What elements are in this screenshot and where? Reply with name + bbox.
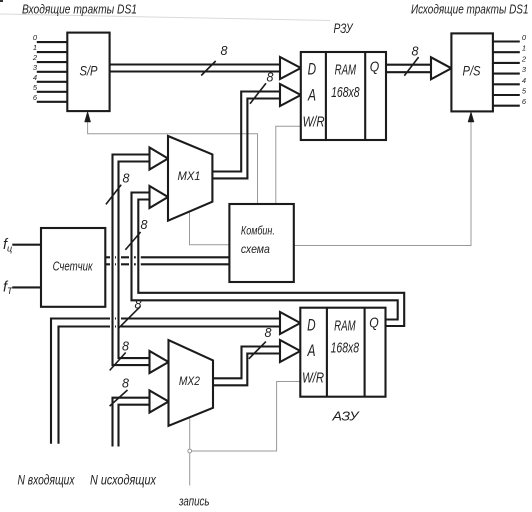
- svg-text:N исходящих: N исходящих: [90, 471, 157, 487]
- svg-text:P/S: P/S: [463, 63, 482, 79]
- svg-text:Исходящие тракты DS1: Исходящие тракты DS1: [411, 2, 529, 16]
- svg-text:2: 2: [32, 53, 38, 62]
- svg-text:D: D: [307, 315, 316, 334]
- svg-text:W/R: W/R: [302, 369, 324, 386]
- svg-text:схема: схема: [241, 242, 270, 256]
- svg-text:РЗУ: РЗУ: [334, 21, 354, 36]
- svg-text:4: 4: [522, 76, 526, 85]
- svg-text:Комбин.: Комбин.: [241, 224, 275, 238]
- svg-text:Счетчик: Счетчик: [53, 259, 94, 273]
- svg-text:8: 8: [123, 172, 130, 186]
- svg-text:1: 1: [33, 43, 37, 52]
- svg-text:8: 8: [221, 44, 228, 58]
- svg-text:D: D: [308, 60, 317, 79]
- svg-text:MX2: MX2: [179, 376, 201, 388]
- svg-text:8: 8: [267, 71, 274, 85]
- svg-text:8: 8: [122, 377, 129, 391]
- svg-text:1: 1: [522, 44, 526, 53]
- svg-text:RAM: RAM: [334, 318, 356, 334]
- svg-text:Q: Q: [369, 314, 379, 331]
- svg-text:8: 8: [135, 298, 142, 312]
- svg-text:Q: Q: [370, 59, 380, 76]
- svg-text:MX1: MX1: [178, 171, 201, 183]
- svg-text:АЗУ: АЗУ: [331, 409, 360, 424]
- svg-text:8: 8: [265, 326, 272, 340]
- svg-text:S/P: S/P: [80, 63, 99, 79]
- svg-text:Входящие тракты DS1: Входящие тракты DS1: [22, 2, 137, 16]
- svg-text:W/R: W/R: [303, 114, 325, 131]
- svg-text:2: 2: [521, 54, 527, 63]
- svg-text:4: 4: [33, 73, 37, 82]
- svg-text:168х8: 168х8: [331, 84, 360, 101]
- svg-text:8: 8: [141, 218, 148, 232]
- svg-text:8: 8: [412, 45, 419, 59]
- svg-text:8: 8: [122, 340, 129, 354]
- svg-text:A: A: [307, 85, 316, 104]
- svg-text:A: A: [307, 341, 316, 360]
- svg-text:запись: запись: [178, 493, 209, 508]
- svg-text:RAM: RAM: [335, 63, 357, 79]
- svg-text:N входящих: N входящих: [18, 471, 76, 487]
- svg-text:168х8: 168х8: [331, 340, 360, 357]
